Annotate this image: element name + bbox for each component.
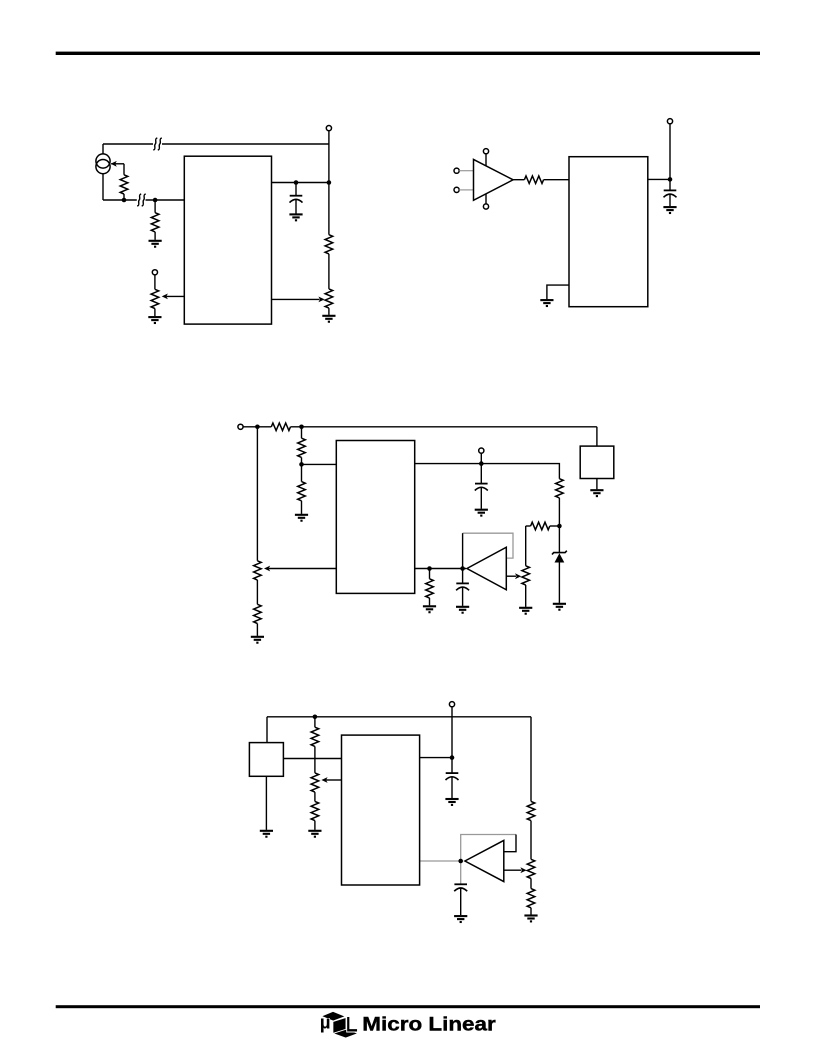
potentiometer R5 bbox=[325, 289, 333, 308]
wire bbox=[480, 453, 482, 483]
potentiometer R14 bbox=[522, 566, 530, 585]
wire top rail bbox=[103, 143, 153, 145]
node dot bbox=[460, 566, 465, 571]
wire bbox=[265, 776, 267, 830]
node dot bbox=[557, 524, 562, 529]
op-amp A1 bbox=[474, 159, 514, 200]
resistor R19 bbox=[527, 801, 535, 820]
wire bbox=[154, 232, 156, 240]
wire bbox=[451, 758, 453, 774]
wiper arrow bbox=[269, 568, 337, 570]
wire IC to buffer gray bbox=[420, 860, 462, 862]
ground bbox=[322, 316, 335, 322]
svg-text:µ: µ bbox=[320, 1012, 331, 1033]
wire IC out bbox=[420, 757, 452, 759]
resistor R10 bbox=[298, 438, 306, 457]
resistor R1 bbox=[120, 175, 128, 194]
wire bbox=[451, 777, 453, 798]
wire bbox=[558, 498, 560, 526]
resistor R13 bbox=[531, 522, 550, 530]
wire bbox=[314, 746, 316, 773]
Micro Linear logo icon bbox=[320, 1011, 358, 1038]
wire bbox=[550, 525, 560, 527]
node dot bbox=[313, 715, 318, 720]
wire IC to cap node bbox=[272, 182, 329, 184]
header rule bbox=[56, 52, 760, 55]
control arrow into current source bbox=[111, 163, 124, 165]
wiper arrow bbox=[166, 295, 184, 297]
feedback loop gray bbox=[463, 533, 513, 558]
resistor R4 bbox=[325, 235, 333, 254]
wire bbox=[513, 179, 524, 181]
box U6 bbox=[249, 743, 283, 777]
wire into IC bbox=[302, 463, 337, 465]
ground bbox=[289, 214, 302, 220]
ground bbox=[423, 606, 436, 612]
wire bbox=[301, 501, 303, 514]
ground bbox=[475, 510, 488, 516]
resistor R12 bbox=[556, 479, 564, 498]
ground bbox=[260, 831, 273, 837]
wire IC to buffer bbox=[415, 568, 466, 570]
ground bbox=[540, 300, 553, 306]
wire bbox=[451, 707, 453, 758]
capacitor C6 bbox=[454, 884, 467, 891]
node dot bbox=[327, 180, 332, 185]
capacitor C4 bbox=[456, 583, 469, 590]
wire gray stub bbox=[459, 189, 473, 191]
ground bbox=[149, 241, 162, 247]
wire bbox=[460, 888, 462, 915]
wire left rail bbox=[256, 427, 258, 561]
wire bbox=[462, 569, 464, 584]
node dot bbox=[450, 755, 455, 760]
capacitor C1 bbox=[290, 196, 303, 203]
wire IC out right bbox=[415, 464, 560, 479]
potentiometer R17 bbox=[311, 773, 319, 792]
wire to box bbox=[266, 717, 268, 743]
resistor R16 bbox=[311, 727, 319, 746]
wire right rail bbox=[328, 131, 330, 235]
terminal bbox=[326, 126, 331, 131]
output arrow to pot bbox=[506, 575, 516, 577]
wire bbox=[295, 183, 297, 196]
capacitor C2 bbox=[664, 190, 677, 197]
wire bbox=[154, 275, 156, 289]
IC U5 bbox=[342, 735, 420, 885]
ground bbox=[148, 317, 161, 323]
ground bbox=[251, 637, 264, 643]
IC U1 bbox=[184, 156, 271, 324]
resistor R6 bbox=[524, 176, 543, 184]
wire bbox=[558, 562, 560, 603]
potentiometer R20 bbox=[527, 859, 535, 878]
node dot bbox=[122, 198, 127, 203]
zener diode D1 bbox=[552, 551, 567, 563]
footer rule bbox=[56, 1005, 760, 1008]
current source I1 bbox=[96, 154, 110, 168]
node dot bbox=[299, 462, 304, 467]
potentiometer R3 bbox=[151, 289, 159, 308]
wire bbox=[123, 194, 125, 200]
buffer A2 bbox=[467, 547, 506, 590]
output arrow to pot bbox=[504, 869, 522, 871]
wire bbox=[462, 587, 464, 606]
wiper arrow bbox=[326, 779, 342, 781]
Micro Linear logo text bbox=[362, 1014, 495, 1035]
wire to box bbox=[596, 427, 598, 446]
ground bbox=[308, 831, 321, 837]
ground bbox=[445, 799, 458, 805]
ground bbox=[663, 207, 676, 213]
wire bbox=[328, 254, 330, 289]
terminal top bbox=[483, 149, 488, 154]
feedback wire black bbox=[504, 835, 516, 852]
node dot bbox=[427, 566, 432, 571]
wire current source bottom bbox=[102, 174, 104, 200]
ground bbox=[524, 916, 537, 922]
terminal bbox=[238, 424, 243, 429]
wire pot leg bbox=[525, 526, 527, 566]
node dot bbox=[294, 180, 299, 185]
wire bbox=[526, 525, 531, 527]
resistor R21 bbox=[527, 889, 535, 908]
wire divider bbox=[301, 427, 303, 438]
node dot bbox=[255, 425, 260, 430]
wire IC ground leg bbox=[547, 285, 569, 299]
wire current source top bbox=[102, 144, 104, 155]
wire zener leg bbox=[558, 526, 560, 552]
wire bbox=[295, 200, 297, 214]
wire bbox=[669, 194, 671, 206]
resistor R15 bbox=[426, 579, 434, 598]
wire bbox=[256, 624, 258, 636]
box U4 bbox=[580, 446, 614, 478]
wiper arrow bbox=[272, 298, 320, 300]
wire bottom rail to IC bbox=[103, 199, 137, 201]
wire break squiggle bbox=[137, 194, 141, 206]
terminal bbox=[479, 448, 484, 453]
wire bbox=[530, 908, 532, 915]
buffer A3 bbox=[465, 840, 504, 881]
wire bbox=[525, 585, 527, 607]
terminal input B bbox=[454, 187, 459, 192]
wire bbox=[314, 792, 316, 801]
wire bbox=[291, 426, 597, 428]
feedback loop gray bbox=[461, 835, 516, 885]
wire bbox=[485, 194, 487, 204]
wire bbox=[485, 154, 487, 166]
svg-text:Micro Linear: Micro Linear bbox=[362, 1014, 495, 1035]
ground bbox=[456, 607, 469, 613]
wire divider chain bbox=[314, 717, 316, 727]
IC U2 bbox=[569, 157, 648, 307]
wire bbox=[154, 309, 156, 317]
potentiometer R8 bbox=[254, 561, 262, 580]
resistor R9 bbox=[254, 604, 262, 623]
resistor R7 bbox=[271, 423, 290, 431]
ground bbox=[590, 490, 603, 496]
wire top rail bbox=[267, 716, 531, 718]
wire bbox=[429, 569, 431, 579]
wire bbox=[429, 598, 431, 605]
wire top rail bbox=[243, 426, 271, 428]
resistor R2 bbox=[151, 213, 159, 232]
wire bbox=[154, 200, 156, 213]
wire bbox=[669, 124, 671, 191]
ground bbox=[454, 916, 467, 922]
capacitor C5 bbox=[446, 773, 459, 780]
wire box out bbox=[283, 758, 341, 760]
capacitor C3 bbox=[475, 484, 488, 491]
node dot bbox=[479, 461, 484, 466]
wire break squiggle bbox=[153, 138, 157, 150]
wire bbox=[480, 487, 482, 508]
resistor R11 bbox=[298, 482, 306, 501]
ground bbox=[553, 604, 566, 610]
terminal bottom bbox=[483, 204, 488, 209]
wire bbox=[314, 821, 316, 830]
wire bbox=[328, 308, 330, 315]
wire bbox=[596, 479, 598, 490]
wire gray stub bbox=[459, 170, 473, 172]
ground bbox=[519, 608, 532, 614]
terminal input A bbox=[454, 168, 459, 173]
ground bbox=[295, 515, 308, 521]
resistor R18 bbox=[311, 801, 319, 820]
wire bbox=[123, 164, 125, 175]
node dot bbox=[153, 198, 158, 203]
feedback wire black bbox=[462, 533, 464, 568]
wire bbox=[530, 821, 532, 860]
wire bbox=[544, 179, 569, 181]
wire bbox=[648, 178, 670, 180]
terminal bbox=[667, 119, 672, 124]
terminal bbox=[152, 270, 157, 275]
wire right rail bbox=[530, 717, 532, 802]
node dot bbox=[668, 177, 673, 182]
IC U3 bbox=[336, 441, 414, 594]
wire bbox=[301, 457, 303, 481]
wire bbox=[256, 580, 258, 604]
wire bbox=[530, 879, 532, 889]
terminal bbox=[449, 702, 454, 707]
node dot bbox=[458, 859, 463, 864]
node dot bbox=[299, 425, 304, 430]
